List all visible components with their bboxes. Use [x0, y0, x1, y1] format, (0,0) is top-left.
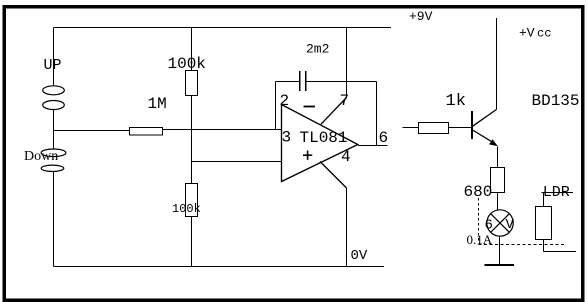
ground symbol bar — [484, 264, 514, 266]
wire base resistor left lead — [403, 127, 419, 129]
svg-text:2: 2 — [280, 92, 290, 110]
wire 1M right lead to op-amp pin2 — [162, 129, 282, 131]
wire node A to 1M left lead — [54, 130, 131, 132]
wire op-amp pin4 vertical to 0V — [346, 188, 348, 267]
resistor R5 680 body — [491, 168, 505, 193]
svg-text:0V: 0V — [351, 248, 368, 264]
wire op-amp pin3 input — [192, 161, 282, 163]
transistor Q1 emitter arrowhead — [489, 139, 498, 146]
wire feedback vertical right — [376, 82, 378, 147]
wire left vertical lower — [53, 172, 55, 267]
svg-text:+V: +V — [519, 26, 535, 41]
capacitor C1 UP sensor plate 2 — [43, 101, 65, 110]
capacitor C3 2m2 plate right — [305, 71, 306, 91]
resistor R4 1k body — [419, 123, 449, 134]
wire left vertical upper (through UP label) — [53, 28, 55, 87]
resistor R1 1M body — [130, 128, 163, 136]
wire op-amp output pin6 — [358, 145, 388, 147]
wire LDR bottom lead — [543, 240, 545, 252]
wire middle vertical 100k divider chain — [191, 28, 193, 71]
wire feedback top left segment — [276, 81, 300, 83]
lamp LA1 X stroke 2 — [491, 214, 510, 233]
dashed light-coupling vertical — [478, 198, 480, 242]
label minus input — [304, 106, 315, 108]
svg-text:3: 3 — [282, 129, 292, 147]
wire LDR top lead through label — [542, 192, 574, 194]
svg-text:0.1A: 0.1A — [467, 232, 493, 247]
resistor R6 LDR body — [536, 207, 552, 240]
wire +Vcc collector vertical — [496, 18, 498, 110]
resistor R3 100k lower body — [186, 184, 198, 217]
wire feedback vertical left — [275, 82, 277, 130]
lamp LA1 circle — [487, 210, 513, 236]
op-amp U1 TL081 triangle — [282, 105, 358, 182]
svg-text:cc: cc — [537, 27, 551, 41]
wire lamp to ground — [499, 236, 501, 264]
capacitor C1 UP sensor plate 1 — [43, 86, 65, 95]
label plus input — [303, 151, 312, 160]
svg-text:BD135: BD135 — [532, 92, 580, 110]
svg-text:100k: 100k — [168, 55, 206, 73]
wire feedback top right segment — [307, 81, 377, 83]
svg-text:6: 6 — [379, 129, 389, 147]
wire top +9V rail — [54, 27, 392, 29]
wire left vertical middle — [53, 110, 55, 150]
svg-text:TL081: TL081 — [300, 129, 348, 147]
wire 680 to lamp — [497, 193, 499, 211]
svg-text:1M: 1M — [148, 95, 167, 113]
svg-text:Down: Down — [24, 149, 58, 164]
transistor Q1 emitter lead — [473, 130, 493, 142]
svg-text:680: 680 — [464, 183, 493, 201]
svg-text:7: 7 — [340, 92, 350, 110]
transistor Q1 BD135 base bar — [471, 111, 473, 139]
svg-text:1k: 1k — [446, 92, 466, 111]
resistor R2 100k upper body — [186, 71, 198, 96]
capacitor C2 Down sensor plate 2 — [41, 165, 64, 171]
svg-text:2m2: 2m2 — [306, 42, 329, 57]
op-amp pin7 diagonal lead — [321, 98, 347, 125]
capacitor C3 2m2 plate left — [299, 71, 300, 91]
transistor Q1 collector lead — [473, 110, 497, 127]
svg-text:LDR: LDR — [543, 184, 570, 201]
svg-text:+9V: +9V — [409, 9, 433, 24]
lamp LA1 X stroke 1 — [491, 214, 510, 233]
svg-text:UP: UP — [44, 57, 62, 74]
dashed light-coupling horizontal — [479, 244, 567, 246]
wire op-amp pin7 power from rail — [346, 28, 348, 98]
wire bottom 0V rail — [54, 266, 385, 268]
svg-text:4: 4 — [341, 148, 351, 166]
svg-text:V: V — [506, 217, 515, 233]
capacitor C2 Down sensor plate 1 — [41, 149, 66, 157]
op-amp pin4 diagonal lead — [320, 162, 347, 189]
svg-text:100k: 100k — [172, 202, 201, 216]
wire emitter to 680 — [497, 147, 499, 168]
wire base resistor right lead — [449, 127, 472, 129]
